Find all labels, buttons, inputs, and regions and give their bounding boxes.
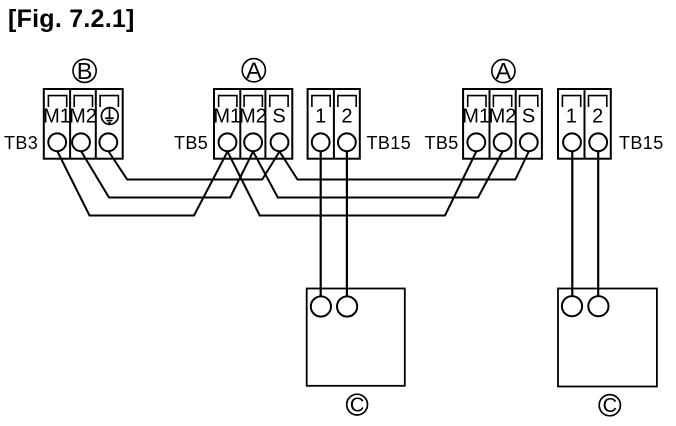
svg-text:S: S	[272, 106, 285, 128]
wire TB3 M2 to TB5#1 M2	[81, 151, 253, 198]
TB3 earth/ground symbol	[101, 108, 118, 125]
TB15 #1 cell brackets	[312, 96, 356, 107]
TB5 #1 cell brackets	[219, 96, 289, 107]
svg-text:TB5: TB5	[174, 133, 208, 153]
svg-text:M1: M1	[43, 106, 71, 128]
svg-text:1: 1	[315, 106, 326, 128]
svg-text:A: A	[246, 57, 262, 83]
label C (circled) under box #2	[599, 395, 620, 416]
remote controller box #1	[307, 289, 405, 386]
svg-text:M2: M2	[489, 106, 517, 128]
svg-text:C: C	[603, 395, 617, 417]
svg-text:1: 1	[566, 106, 577, 128]
remote controller #2 terminal circles	[562, 296, 609, 316]
svg-text:TB5: TB5	[425, 133, 459, 153]
svg-text:2: 2	[341, 106, 352, 128]
wire TB15#1 pin1 to remote controller	[320, 151, 322, 297]
wire TB15#1 pin2 to remote controller	[346, 151, 348, 297]
svg-text:TB3: TB3	[4, 133, 38, 153]
TB3 cell brackets	[48, 96, 118, 107]
svg-text:M2: M2	[239, 106, 267, 128]
svg-text:B: B	[77, 58, 93, 84]
terminal block TB5 #1 outline	[214, 89, 292, 159]
label B (circled) above TB3	[73, 59, 96, 82]
TB5 #2 terminal circles	[467, 133, 537, 151]
svg-text:2: 2	[592, 106, 603, 128]
TB15 #2 cell brackets	[562, 96, 606, 107]
svg-text:M2: M2	[69, 106, 97, 128]
svg-text:C: C	[350, 395, 364, 417]
svg-text:TB15: TB15	[367, 133, 412, 153]
wire TB15#2 pin1 to remote controller	[571, 151, 573, 296]
terminal block TB15 #2 outline	[558, 89, 611, 159]
wire TB15#2 pin2 to remote controller	[597, 151, 599, 296]
TB3 terminal circles	[48, 133, 117, 151]
TB5 #2 cell brackets	[468, 96, 538, 107]
label C (circled) under box #1	[347, 394, 368, 415]
wire TB5#1 S to TB5#2 S	[280, 152, 529, 180]
terminal block TB3 outline	[44, 89, 123, 159]
remote controller box #2	[558, 289, 657, 387]
wire TB3 earth to TB5#1 S	[108, 151, 279, 180]
TB5 #1 terminal circles	[219, 133, 289, 151]
svg-text:[Fig. 7.2.1]: [Fig. 7.2.1]	[8, 5, 135, 33]
remote controller #1 terminal circles	[311, 296, 357, 316]
svg-text:M1: M1	[462, 106, 490, 128]
svg-text:M1: M1	[213, 106, 241, 128]
label A (circled) above TB5 #1	[242, 59, 265, 82]
wire TB3 M1 to TB5#1 M1	[57, 151, 227, 216]
terminal block TB15 #1 outline	[308, 89, 360, 159]
wire TB5#1 M2 to TB5#2 M2	[253, 152, 503, 198]
wire TB5#1 M1 to TB5#2 M1	[228, 152, 477, 216]
TB15 #2 terminal circles	[563, 133, 607, 151]
TB15 #1 terminal circles	[312, 133, 356, 151]
svg-text:S: S	[522, 106, 535, 128]
terminal block TB5 #2 outline	[463, 89, 542, 159]
label A (circled) above TB5 #2	[492, 59, 515, 82]
svg-text:A: A	[496, 58, 512, 84]
svg-text:TB15: TB15	[619, 133, 664, 153]
